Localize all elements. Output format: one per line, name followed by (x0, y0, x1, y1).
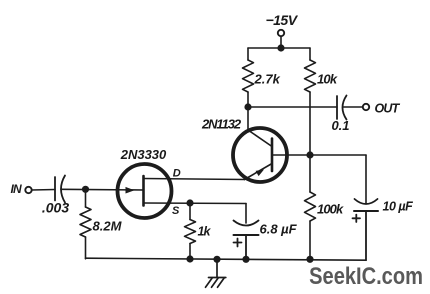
wire gate (61, 188, 144, 191)
svg-text:S: S (172, 205, 180, 217)
wire base node to 10uF (310, 155, 366, 204)
wire source corner down to 6.8uF (245, 204, 247, 224)
capacitor C4 10uF (353, 199, 379, 260)
node collector (244, 103, 251, 110)
power terminal -15V (278, 30, 284, 36)
resistor R5 100k (305, 155, 316, 259)
terminal OUT (363, 104, 369, 110)
svg-text:10k: 10k (317, 72, 338, 87)
junction 100k ground (306, 256, 313, 263)
wire top rail (248, 47, 310, 49)
node source (186, 199, 193, 206)
wire cap to OUT terminal (343, 106, 363, 108)
wire 10k to base node (309, 92, 311, 155)
ground (206, 259, 226, 287)
junction 6.8uF ground (242, 256, 249, 263)
svg-text:8.2M: 8.2M (93, 219, 123, 234)
svg-text:OUT: OUT (375, 101, 401, 115)
node gate (82, 186, 89, 193)
svg-text:2N3330: 2N3330 (120, 147, 167, 162)
svg-text:SeekIC.com: SeekIC.com (309, 262, 423, 289)
capacitor C2 0.1 (337, 96, 347, 120)
svg-text:−15V: −15V (265, 12, 298, 28)
terminal IN (25, 187, 31, 193)
svg-text:.003: .003 (42, 200, 69, 216)
junction top rail (277, 44, 284, 51)
svg-text:2N1132: 2N1132 (201, 117, 242, 132)
wire top rail to 10k (309, 48, 311, 60)
capacitor C3 6.8uF (234, 221, 259, 260)
svg-text:IN: IN (11, 182, 23, 196)
wire -15V terminal to top rail (280, 36, 282, 48)
wire ground rail (86, 258, 367, 260)
capacitor C1 .003 (55, 176, 65, 203)
svg-text:2.7k: 2.7k (254, 72, 281, 87)
wire collector node to output cap (248, 106, 337, 108)
wire JFET drain to Q1 emitter (144, 179, 245, 180)
resistor R3 8.2M (80, 189, 91, 258)
junction ground tap (213, 256, 220, 263)
resistor R1 2.7k (243, 60, 254, 92)
svg-text:10 µF: 10 µF (383, 200, 414, 214)
svg-text:0.1: 0.1 (331, 118, 349, 133)
wire source (144, 202, 247, 205)
wire top rail to 2.7k (247, 48, 249, 60)
wire IN to cap (32, 189, 55, 192)
resistor R4 1k (185, 203, 196, 259)
wire base to node (272, 154, 310, 156)
svg-text:100k: 100k (317, 202, 344, 217)
wire 2.7k to collector node (247, 92, 249, 107)
node base (306, 151, 313, 158)
svg-text:6.8 µF: 6.8 µF (260, 222, 298, 237)
transistor Q1 2N1132 (233, 107, 287, 182)
svg-text:D: D (173, 168, 181, 180)
resistor R2 10k (305, 60, 316, 92)
junction 1k ground (186, 255, 193, 262)
svg-text:1k: 1k (198, 225, 212, 239)
transistor Q2 2N3330 JFET (118, 164, 172, 218)
